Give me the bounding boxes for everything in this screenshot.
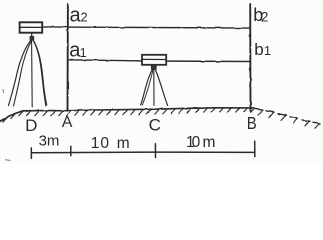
svg-text:3m: 3m: [39, 133, 60, 150]
svg-text:2: 2: [81, 11, 88, 25]
svg-text:1: 1: [264, 44, 271, 58]
svg-text:C: C: [149, 116, 161, 135]
svg-text:0: 0: [100, 135, 109, 152]
svg-text:1: 1: [80, 46, 87, 60]
svg-text:A: A: [62, 114, 73, 131]
svg-text:1: 1: [91, 135, 100, 152]
svg-text:m: m: [203, 134, 216, 151]
svg-text:D: D: [25, 116, 37, 135]
svg-text:0: 0: [192, 134, 201, 151]
svg-text:2: 2: [261, 9, 269, 24]
svg-text:B: B: [247, 113, 257, 133]
svg-text:m: m: [117, 135, 130, 152]
svg-text:b: b: [254, 40, 263, 59]
